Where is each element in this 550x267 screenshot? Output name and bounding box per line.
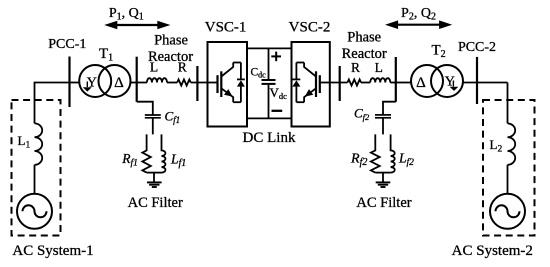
svg-text:Lf1: Lf1 [170,152,186,170]
inductor Lf2 (filter 2) [391,134,395,172]
svg-text:Phase: Phase [347,30,381,46]
diode D2 (antiparallel, VSC-2) [292,63,300,103]
wire: filter 1 ground stub [153,173,155,182]
inductor L (phase reactor 2) [370,78,390,82]
svg-text:Δ: Δ [114,75,124,91]
svg-text:T2: T2 [432,43,446,61]
svg-text:Vdc: Vdc [270,85,288,101]
wire: filter 2 bottom bar [375,172,390,174]
VSC-1 box [208,42,248,127]
dashed box: AC System-1 [12,100,61,236]
transformer T2 [411,65,463,97]
wire: filter 1 tap from bus B1 [137,102,153,115]
wire: R to L (phase reactor 2) [361,82,370,84]
VSC-2 box [292,42,330,127]
svg-text:L2: L2 [490,137,503,155]
bus bar PCC-1 [68,57,70,108]
wire: filter 1 bottom bar [147,172,162,174]
AC source SRC2 [490,194,525,229]
wire: T1 to bus B1 [131,82,137,84]
wire: down into AC System-2 to L2 coil [507,83,509,124]
wire: PCC-1 bus to T1 [70,82,80,84]
capacitor Cf2 [375,115,391,134]
svg-text:P1, Q1: P1, Q1 [109,6,144,23]
svg-text:Rf2: Rf2 [350,152,367,169]
ground (filter 1) [147,182,162,187]
svg-text:Cf1: Cf1 [165,109,181,126]
svg-text:T1: T1 [99,46,113,64]
arrow P2 Q2 (double-headed) [385,20,452,29]
transistor Q2 (IGBT in VSC-2) [296,63,329,103]
svg-text:L: L [375,60,383,75]
wire: bus B1 to phase reactor L [137,82,147,84]
svg-text:Rf1: Rf1 [121,151,138,169]
svg-text:Lf2: Lf2 [398,151,414,169]
bus bar B4 (grid side, before T2) [395,57,397,102]
svg-text:AC Filter: AC Filter [356,195,411,211]
wire: VSC-2 to R (phase reactor 2) [330,82,348,84]
arrow P1 Q1 (double-headed) [104,21,170,30]
label + (DC link polarity) [271,52,281,62]
wire: L2 coil to AC source 2 [507,165,509,194]
svg-text:Δ: Δ [416,75,426,91]
svg-text:Phase: Phase [154,33,188,49]
T1 neutral ground mark [83,82,92,92]
ground (filter 2) [376,182,391,187]
diode D1 (antiparallel, VSC-1) [237,63,245,103]
transformer T1 [79,65,130,97]
svg-text:Reactor: Reactor [342,46,387,62]
T2 neutral ground mark [450,81,459,91]
bus bar B2 (VSC-1 input) [196,66,198,101]
inductor L2 coil [508,123,516,164]
wire: L to bus B4 [390,82,396,84]
transistor Q1 (IGBT in VSC-1) [208,63,241,103]
capacitor Cf1 [145,115,161,134]
resistor R (phase reactor 2) [348,80,362,86]
wire: L1 coil top up and right to PCC-1 bus [35,83,70,124]
svg-text:Cdc: Cdc [251,67,267,80]
inductor L1 coil [35,123,43,164]
svg-text:AC System-1: AC System-1 [12,243,93,259]
capacitor Cdc [262,48,276,118]
wire: R to VSC-1 box [191,82,208,84]
svg-text:Cf2: Cf2 [354,106,370,123]
svg-text:DC Link: DC Link [243,130,296,146]
wire: L to R (phase reactor 1) [167,82,177,84]
wire: bus B4 to T2 [396,82,411,84]
wire: T2 to PCC-2 bus and on to AC System-2 [463,82,508,84]
bus bar PCC-2 [476,57,478,104]
svg-text:AC Filter: AC Filter [128,195,183,211]
svg-text:VSC-2: VSC-2 [289,20,331,36]
svg-text:Reactor: Reactor [148,49,193,65]
svg-text:PCC-1: PCC-1 [48,37,86,52]
bus bar B3 (VSC-2 output) [339,66,341,101]
resistor Rf1 (filter 1) [142,134,150,172]
svg-text:PCC-2: PCC-2 [458,40,496,55]
AC source SRC1 [17,194,52,229]
svg-text:P2, Q2: P2, Q2 [401,6,436,23]
resistor Rf2 (filter 2) [371,134,380,172]
wire: AC source 1 top to L1 coil bottom [34,165,36,194]
label - (DC link polarity) [272,110,283,112]
svg-text:VSC-1: VSC-1 [205,20,247,36]
wire: DC link top rail [247,47,292,49]
wire: filter 2 ground stub [382,173,384,182]
resistor R (phase reactor 1) [177,80,191,86]
svg-text:AC System-2: AC System-2 [452,243,533,259]
bus bar B1 (converter side of T1) [136,57,138,102]
inductor Lf1 (filter 1) [162,134,166,172]
dashed box: AC System-2 [483,100,535,236]
wire: DC link bottom rail [247,117,292,119]
wire: filter 2 tap from bus B4 [383,102,396,115]
inductor L (phase reactor 1) [147,78,167,82]
svg-text:L1: L1 [18,133,31,151]
svg-text:R: R [351,60,360,75]
